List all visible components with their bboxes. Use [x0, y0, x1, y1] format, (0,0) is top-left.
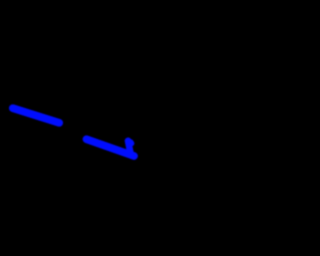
arrowhead barb	[128, 141, 131, 155]
wire dash 1	[13, 108, 59, 123]
arrowhead barb nub	[131, 142, 132, 144]
wire dash 2	[87, 139, 135, 156]
arrow annotation	[0, 0, 256, 256]
